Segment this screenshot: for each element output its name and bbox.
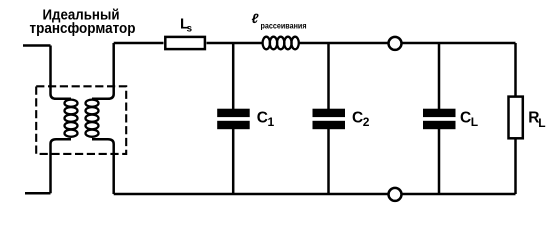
capacitor C2 <box>313 109 346 130</box>
svg-text:1: 1 <box>268 115 275 129</box>
transformer secondary winding <box>86 100 99 137</box>
label C2 <box>352 109 370 129</box>
wire: CL bottom branch <box>438 129 441 194</box>
wire: primary bottom lead <box>51 139 72 193</box>
transformer primary winding <box>65 100 78 137</box>
svg-text:s: s <box>187 23 193 34</box>
svg-text:C: C <box>352 109 363 126</box>
label RL <box>528 109 545 130</box>
label Ls <box>180 16 193 35</box>
capacitor CL <box>423 109 456 130</box>
wire: CL top branch <box>438 43 441 109</box>
wire: primary top lead <box>51 46 72 99</box>
wire: bottom-left input stub <box>25 192 51 195</box>
svg-text:L: L <box>538 116 545 130</box>
wire: C2 bottom branch <box>327 129 330 194</box>
wire: top rail from leakage inductor to right edge <box>299 42 516 45</box>
label C1 <box>257 109 275 129</box>
wire: bottom rail <box>114 193 516 196</box>
inductor L_рассеивания (leakage inductance coil) <box>263 37 299 50</box>
svg-text:2: 2 <box>363 115 370 129</box>
wire: right edge bottom <box>514 138 517 194</box>
dashed boundary of ideal transformer <box>36 86 126 154</box>
svg-text:C: C <box>460 109 471 126</box>
svg-text:C: C <box>257 109 268 126</box>
svg-text:ℓ: ℓ <box>252 11 260 26</box>
wire: top rail from Ls to leakage inductor <box>207 42 263 45</box>
capacitor C1 <box>217 109 250 130</box>
label CL <box>460 109 478 129</box>
wire: C1 top branch <box>232 43 235 109</box>
svg-text:рассеивания: рассеивания <box>261 22 307 31</box>
inductor Ls (box symbol) <box>165 37 205 49</box>
terminal: top output port <box>389 37 402 50</box>
wire: secondary top lead <box>92 43 114 99</box>
wire: top rail from transformer to Ls <box>114 42 164 45</box>
wire: right edge top <box>514 43 517 96</box>
resistor RL <box>509 97 523 139</box>
terminal: bottom output port <box>389 188 402 201</box>
svg-text:L: L <box>471 115 478 129</box>
label "Идеальный трансформатор" <box>30 8 136 38</box>
wire: top-left input stub <box>23 44 51 47</box>
wire: C2 top branch <box>327 43 330 109</box>
wire: C1 bottom branch <box>232 129 235 194</box>
wire: secondary bottom lead <box>92 139 114 194</box>
svg-text:трансформатор: трансформатор <box>30 21 136 37</box>
label ℓ рассеивания <box>252 11 307 31</box>
